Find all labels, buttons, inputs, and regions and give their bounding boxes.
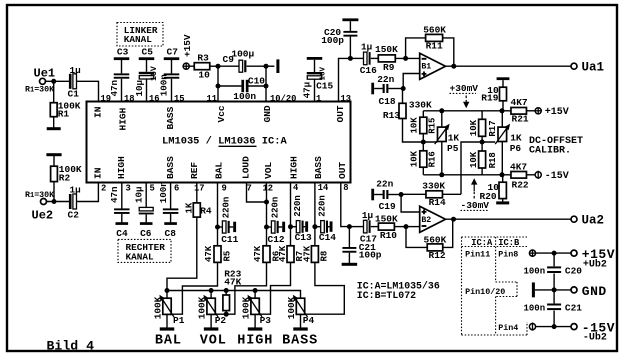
terminal -15V -Ub2 (571, 324, 577, 330)
supply table dotted box (462, 236, 528, 238)
svg-text:HIGH: HIGH (237, 333, 273, 348)
svg-text:P1: P1 (173, 315, 185, 326)
svg-text:100n: 100n (233, 91, 256, 102)
svg-text:C2: C2 (68, 209, 80, 220)
svg-text:47K: 47K (302, 245, 312, 262)
svg-text:REF: REF (189, 162, 200, 179)
wire P4 wiper to R8 (305, 263, 344, 315)
svg-text:B1: B1 (421, 62, 431, 71)
wire C1 to pin 19 (77, 81, 99, 101)
svg-text:OUT: OUT (337, 162, 348, 179)
wire R14 column to divider B mid (461, 142, 495, 194)
node P1 top (165, 288, 170, 293)
node C11 (215, 225, 220, 230)
wire pin 8 to C17 (341, 183, 350, 227)
svg-text:BASS: BASS (165, 156, 176, 179)
svg-text:Ua2: Ua2 (582, 214, 605, 228)
svg-text:560K: 560K (423, 24, 446, 35)
svg-text:R18: R18 (488, 152, 498, 168)
resistor R18 10K (479, 151, 486, 168)
+15V rail terminal symbol (529, 250, 535, 256)
svg-text:P5: P5 (447, 143, 459, 154)
wire P1 wiper to R5 (172, 263, 218, 315)
svg-text:KANAL: KANAL (124, 34, 153, 45)
terminal GND (571, 287, 577, 293)
resistor R9 150K (371, 57, 379, 59)
svg-text:100K: 100K (286, 296, 297, 319)
svg-text:OUT: OUT (335, 105, 346, 122)
svg-text:-15V: -15V (545, 171, 569, 182)
wire pin 4 down (290, 183, 292, 246)
svg-text:-30mV: -30mV (461, 200, 490, 211)
svg-text:C21: C21 (565, 303, 582, 314)
+15V supply terminal at R3 (183, 63, 189, 69)
resistor R2 100K (53, 182, 55, 202)
node -15V rail (552, 324, 557, 329)
svg-text:3: 3 (126, 184, 131, 194)
svg-text:100n: 100n (524, 304, 546, 314)
resistor R21 4K7 (502, 110, 511, 112)
wire B2 non-inverting input (401, 195, 420, 213)
svg-text:5: 5 (150, 184, 155, 194)
svg-text:100n: 100n (159, 74, 170, 96)
svg-text:Pin4: Pin4 (498, 323, 518, 333)
svg-text:R19: R19 (481, 92, 498, 103)
svg-text:10K: 10K (469, 119, 479, 136)
svg-text:47K: 47K (253, 245, 263, 262)
input terminal Ue2 (41, 199, 47, 205)
node P5 bottom (439, 172, 444, 177)
svg-text:Ua1: Ua1 (582, 61, 605, 75)
potentiometer P2 100K VOL (210, 291, 212, 299)
svg-text:GND: GND (262, 105, 273, 122)
wire R4 down to REF rail (167, 217, 197, 298)
-15V supply terminal right (535, 172, 541, 178)
svg-text:GND: GND (582, 284, 607, 299)
svg-text:C16: C16 (360, 65, 377, 76)
svg-text:C20: C20 (565, 266, 582, 277)
svg-text:R9: R9 (383, 62, 395, 73)
svg-text:220n: 220n (317, 195, 327, 217)
wire Vcc node down to pin 11 (217, 66, 219, 101)
+30mV rail (423, 110, 502, 112)
terminal +15V +Ub2 (571, 250, 577, 256)
svg-text:IC:B: IC:B (498, 238, 520, 248)
svg-text:100p: 100p (321, 35, 344, 46)
capacitor C21 100p lower (348, 227, 350, 247)
resistor R20 10 (502, 175, 504, 182)
wire C9 to ground node (247, 65, 266, 67)
svg-text:2: 2 (101, 184, 106, 194)
svg-text:8: 8 (343, 183, 348, 193)
capacitor C20 100p top (349, 37, 351, 59)
svg-text:C7: C7 (167, 47, 179, 58)
potentiometer P4 100K BASS (296, 298, 304, 314)
svg-text:R11: R11 (426, 40, 443, 51)
capacitor C20 100n rail (547, 266, 561, 268)
svg-text:+30mV: +30mV (450, 83, 479, 94)
svg-text:47µ: 47µ (301, 82, 312, 99)
wire Ue1 to C1 (46, 80, 70, 82)
svg-text:+15V: +15V (182, 34, 193, 57)
svg-text:R8: R8 (319, 251, 329, 262)
svg-text:LOUD: LOUD (241, 156, 252, 179)
svg-text:R12: R12 (429, 250, 446, 261)
svg-text:VOL: VOL (263, 162, 274, 179)
svg-text:13: 13 (341, 94, 352, 104)
svg-text:B2: B2 (421, 216, 431, 225)
capacitor C2 1u (69, 194, 72, 209)
svg-text:R13: R13 (383, 110, 400, 121)
svg-text:Ue2: Ue2 (32, 209, 54, 223)
capacitor C9 100u (218, 65, 239, 67)
svg-text:4: 4 (293, 183, 299, 193)
node C20/C16 (348, 56, 353, 61)
svg-text:R16: R16 (428, 151, 438, 167)
ground symbol GND rail (532, 282, 535, 297)
svg-text:560K: 560K (424, 234, 447, 245)
svg-text:1µ: 1µ (361, 41, 372, 52)
resistor R13 330K (402, 89, 404, 104)
svg-text:1µ: 1µ (362, 210, 373, 221)
svg-text:12: 12 (263, 184, 274, 194)
svg-text:IC:A: IC:A (471, 238, 493, 248)
resistor R11 560K feedback (406, 38, 426, 59)
svg-text:330K: 330K (422, 181, 445, 192)
svg-text:10µ: 10µ (134, 186, 145, 203)
svg-text:C3: C3 (117, 47, 129, 58)
resistor R10 150K (394, 226, 406, 228)
wire R3 to Vcc node (210, 65, 218, 67)
capacitor C10 100n (218, 85, 241, 87)
trimmer P5 1K (441, 111, 443, 128)
svg-text:1K: 1K (184, 202, 194, 213)
resistor R8 47K (311, 246, 318, 263)
svg-text:C4: C4 (116, 228, 128, 239)
node C14 (312, 224, 317, 229)
svg-text:C19: C19 (379, 201, 396, 212)
svg-text:IN: IN (93, 167, 104, 179)
wire B2 output to Ua2 (446, 218, 572, 220)
svg-text:C10: C10 (248, 76, 265, 87)
svg-text:C12: C12 (268, 234, 285, 245)
svg-text:R22: R22 (512, 179, 529, 190)
svg-text:+15V: +15V (545, 107, 569, 118)
resistor R15 10K (422, 111, 424, 117)
wire B1 non-inverting input (403, 74, 420, 89)
svg-text:10: 10 (198, 69, 210, 80)
svg-text:10K: 10K (410, 117, 420, 134)
trimmer P6 1K (501, 111, 503, 128)
capacitor C1 1u (69, 74, 72, 89)
capacitor C7 100n (171, 79, 173, 102)
svg-text:1: 1 (316, 94, 321, 104)
capacitor C6 10u (145, 183, 147, 208)
REF rail to pots (167, 291, 301, 299)
resistor R22 4K7 (502, 174, 511, 176)
potentiometer P1 100K BAL (163, 298, 171, 314)
svg-text:R5: R5 (222, 251, 232, 262)
svg-text:22n: 22n (377, 74, 394, 85)
svg-text:220n: 220n (271, 197, 281, 219)
wire pin 13 up to C16 node (339, 58, 351, 101)
capacitor C17 1u (364, 220, 368, 233)
svg-text:47K: 47K (204, 245, 214, 262)
svg-text:100n: 100n (158, 181, 169, 203)
ground right of C9 (266, 65, 274, 67)
svg-text:HIGH: HIGH (118, 107, 129, 130)
svg-text:R1=30K: R1=30K (25, 85, 54, 94)
capacitor C19 22n (371, 189, 374, 201)
svg-text:R1: R1 (58, 108, 70, 119)
wire pin 12 down (266, 183, 268, 246)
svg-text:100K: 100K (197, 296, 208, 319)
svg-text:BAL: BAL (214, 162, 225, 179)
node pin7/pin12 (264, 200, 269, 205)
svg-text:330K: 330K (409, 99, 432, 110)
rail vertical wire (553, 253, 555, 266)
node B1 output (451, 64, 456, 69)
svg-text:-Ub2: -Ub2 (583, 332, 607, 344)
svg-text:17: 17 (194, 184, 205, 194)
svg-text:BASS: BASS (313, 156, 324, 179)
svg-text:C8: C8 (165, 228, 177, 239)
-30mV rail (423, 174, 502, 176)
svg-text:R21: R21 (512, 113, 529, 124)
node C10 left (216, 84, 221, 89)
svg-text:10µ: 10µ (134, 80, 145, 97)
svg-text:220n: 220n (222, 197, 232, 219)
svg-text:6: 6 (174, 184, 179, 194)
IC U1 LM1035/LM1036 body (87, 102, 351, 183)
svg-text:100p: 100p (359, 250, 382, 261)
svg-text:BASS: BASS (165, 106, 176, 129)
ground above R2 (46, 153, 61, 156)
svg-text:P6: P6 (510, 143, 522, 154)
resistor R17 10K (481, 111, 483, 120)
svg-text:C6: C6 (140, 228, 152, 239)
svg-text:C13: C13 (295, 232, 312, 243)
svg-text:C11: C11 (221, 234, 238, 245)
svg-text:10K: 10K (469, 151, 479, 168)
node P2 wiper / R23 (224, 312, 229, 317)
svg-text:KANAL: KANAL (126, 252, 155, 263)
svg-text:Vcc: Vcc (216, 105, 227, 122)
svg-text:Bild 4: Bild 4 (47, 338, 95, 353)
capacitor C8 100n (170, 183, 172, 209)
capacitor C18 22n (371, 83, 374, 95)
svg-text:Pin10/20: Pin10/20 (465, 287, 505, 297)
node divider B mid (480, 140, 485, 145)
wire C2 to pin 2 (77, 183, 99, 202)
resistor R4 1K on pin 17 (196, 183, 198, 204)
svg-text:150K: 150K (375, 213, 398, 224)
svg-text:100µ: 100µ (231, 48, 254, 59)
svg-text:P4: P4 (303, 315, 315, 326)
svg-text:VOL: VOL (200, 333, 227, 348)
node -30mV/R20/R22 (500, 172, 505, 177)
svg-text:R4: R4 (200, 206, 212, 217)
svg-text:C14: C14 (319, 232, 336, 243)
svg-text:4K7: 4K7 (510, 162, 527, 173)
svg-text:IC:B=TL072: IC:B=TL072 (357, 290, 416, 301)
capacitor C14 220n (315, 226, 321, 228)
node divider A mid (421, 140, 426, 145)
wire pin 9 down (217, 183, 219, 246)
svg-text:11: 11 (207, 94, 218, 104)
node +30mV/R19/R21 (500, 108, 505, 113)
wire P2 wiper to R6 (216, 263, 267, 315)
node Ue1/R1 (51, 79, 56, 84)
wire R13 to divider A mid node (403, 119, 438, 143)
svg-text:10/20: 10/20 (270, 94, 296, 104)
wire down to pin 10/20 (265, 66, 267, 101)
svg-text:16V: 16V (319, 66, 327, 80)
svg-text:47n: 47n (109, 80, 120, 97)
svg-text:47K: 47K (278, 245, 288, 262)
capacitor C16 1u (350, 57, 363, 59)
svg-text:+Ub2: +Ub2 (583, 258, 607, 270)
resistor R7 47K (287, 246, 294, 263)
node C9/C10 right (264, 64, 269, 69)
resistor R23 47K (225, 291, 227, 296)
svg-text:P3: P3 (260, 315, 272, 326)
ground below R20 (496, 201, 509, 204)
node C12 (264, 225, 269, 230)
svg-text:P2: P2 (215, 315, 227, 326)
wire Ue2 to C2 (47, 201, 70, 203)
svg-text:1µ: 1µ (70, 184, 81, 195)
wire GND rail (535, 289, 571, 291)
output terminal Ua2 (571, 216, 577, 222)
label box LINKER KANAL (117, 23, 163, 47)
resistor R6 47K (263, 246, 270, 263)
op-amp B2 (420, 206, 446, 232)
wire B2 inverting input (406, 226, 420, 228)
wire R1 to ground (53, 117, 55, 128)
node B2 output (451, 217, 456, 222)
svg-text:R14: R14 (429, 197, 446, 208)
capacitor C13 220n (291, 226, 297, 228)
svg-text:C18: C18 (379, 96, 396, 107)
svg-text:100K: 100K (241, 296, 252, 319)
svg-text:R2: R2 (59, 173, 71, 184)
resistor R3 10 (189, 65, 194, 67)
svg-text:CALIBR.: CALIBR. (529, 145, 571, 156)
wire -15V rail (536, 326, 571, 328)
resistor R19 10 (497, 77, 510, 80)
capacitor C5 10u 16V (146, 79, 148, 102)
svg-text:IN: IN (93, 106, 104, 118)
svg-text:R10: R10 (380, 230, 397, 241)
wire R2 to ground (53, 156, 55, 166)
svg-text:C5: C5 (142, 47, 154, 58)
capacitor C3 47n (121, 79, 123, 102)
-15V rail terminal symbol (529, 324, 535, 330)
node GND rail (552, 287, 557, 292)
node +15V rail (552, 251, 557, 256)
node C10 right (264, 84, 269, 89)
svg-text:15: 15 (174, 94, 185, 104)
wire R9 to B1 inverting input (395, 57, 419, 59)
capacitor C4 47n (121, 183, 123, 209)
svg-text:HIGH: HIGH (116, 156, 127, 179)
output terminal Ua1 (571, 63, 577, 69)
resistor R16 10K (422, 142, 424, 151)
svg-text:1µ: 1µ (70, 65, 81, 76)
resistor R1 100K (53, 81, 55, 103)
svg-text:10K: 10K (410, 150, 420, 167)
svg-text:R15: R15 (428, 118, 438, 134)
wire pin 7 elbow to pin 12 (247, 183, 267, 203)
svg-text:BASS: BASS (282, 333, 318, 348)
svg-text:150K: 150K (375, 44, 398, 55)
svg-text:Pin11: Pin11 (465, 249, 490, 259)
svg-text:7: 7 (247, 184, 252, 194)
wire +15V rail (536, 252, 571, 254)
svg-text:R17: R17 (488, 120, 498, 136)
svg-text:BAL: BAL (155, 333, 182, 348)
resistor R12 560K feedback (406, 227, 427, 248)
svg-text:Ue1: Ue1 (34, 67, 56, 81)
svg-text:100n: 100n (524, 267, 546, 277)
input terminal Ue1 (40, 78, 46, 84)
capacitor C15 47u 16V (314, 79, 316, 101)
node C19/R14 (399, 192, 404, 197)
node C18/R13 (401, 86, 406, 91)
+15V supply terminal right (535, 108, 541, 114)
capacitor C11 220n (218, 226, 223, 228)
svg-text:47n: 47n (109, 186, 120, 203)
node B2 inverting (404, 224, 409, 229)
svg-text:HIGH: HIGH (289, 156, 300, 179)
svg-text:22n: 22n (376, 179, 393, 190)
resistor R5 47K (214, 246, 221, 263)
resistor R14 330K (401, 193, 426, 195)
node Ue2/R2 (52, 199, 57, 204)
node P5 top (439, 108, 444, 113)
node C13 (288, 224, 293, 229)
capacitor C12 220n (267, 226, 272, 228)
capacitor C21 100n rail (547, 304, 561, 306)
node Vcc pin 11 (216, 64, 221, 69)
svg-text:14: 14 (318, 183, 329, 193)
wire P3 wiper to R7 (260, 263, 291, 315)
node B1 inverting (403, 56, 408, 61)
label box RECHTER KANAL (118, 239, 171, 262)
node pin8/C17/C21 (347, 224, 352, 229)
svg-text:R1=30K: R1=30K (25, 191, 54, 200)
svg-text:Pin8: Pin8 (498, 249, 518, 259)
svg-text:R3: R3 (197, 52, 209, 63)
svg-text:4K7: 4K7 (511, 97, 528, 108)
svg-text:100K: 100K (153, 296, 164, 319)
wire B1 output to Ua1 (446, 65, 572, 67)
wire pin 14 down (314, 183, 316, 246)
ground below R1 (47, 127, 61, 130)
op-amp B1 (420, 53, 446, 79)
potentiometer P3 100K HIGH (254, 291, 256, 299)
svg-text:C1: C1 (68, 88, 80, 99)
svg-text:220n: 220n (293, 195, 303, 217)
svg-text:9: 9 (222, 184, 227, 194)
svg-text:C15: C15 (316, 80, 333, 91)
